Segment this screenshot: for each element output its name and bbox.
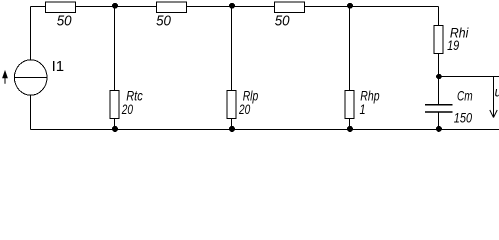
resistor Rtc body [110, 90, 119, 118]
wire right column upper (through Rhi to cap top) [438, 7, 440, 105]
wire left branch lower [30, 95, 32, 130]
junction dot node C top [347, 3, 353, 9]
wire right column lower (cap bottom to rail) [438, 113, 440, 130]
wire column node A (Rtc) [114, 7, 116, 130]
svg-text:u: u [495, 84, 499, 100]
svg-text:50: 50 [275, 13, 290, 30]
junction dot output node [436, 74, 442, 80]
wire bottom rail [31, 129, 499, 131]
junction dot node A top [112, 3, 118, 9]
resistor Rlp body [227, 90, 236, 118]
svg-text:19: 19 [447, 38, 459, 54]
wire output node to edge [439, 76, 499, 78]
junction dot right column bottom [436, 126, 442, 132]
svg-text:1: 1 [360, 102, 366, 118]
junction dot node C bottom [347, 126, 353, 132]
resistor R2 body [157, 2, 187, 12]
wire top rail [31, 6, 439, 8]
resistor R3 body [275, 2, 305, 12]
voltage arrow u [490, 77, 497, 118]
capacitor Cm plates [425, 105, 453, 112]
svg-text:50: 50 [156, 13, 171, 30]
svg-text:20: 20 [121, 101, 133, 117]
svg-text:50: 50 [57, 13, 72, 30]
svg-text:20: 20 [238, 101, 250, 117]
resistor Rhi body [434, 25, 443, 53]
resistor R1 body [46, 2, 76, 12]
junction dot node B bottom [229, 126, 235, 132]
current source I1 circle [14, 60, 47, 95]
wire column node C (Rhp) [349, 7, 351, 130]
svg-text:I1: I1 [52, 58, 65, 75]
svg-text:150: 150 [454, 110, 472, 126]
junction dot node A bottom [112, 126, 118, 132]
wire column node B (Rlp) [231, 7, 233, 130]
wire left branch upper [30, 7, 32, 61]
resistor Rhp body [345, 90, 354, 118]
svg-text:Cm: Cm [457, 88, 473, 104]
current direction arrow of I1 [2, 70, 8, 84]
junction dot node B top [229, 3, 235, 9]
